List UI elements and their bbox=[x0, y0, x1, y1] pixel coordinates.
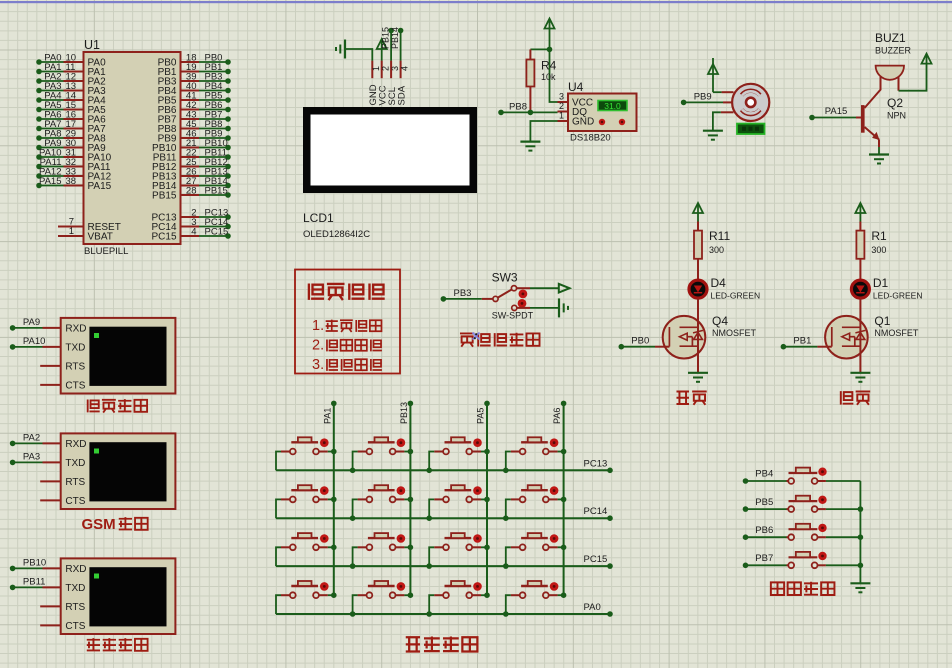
keypad column wire PB13 bbox=[399, 401, 413, 598]
svg-text:PB15: PB15 bbox=[380, 27, 390, 49]
svg-text:Q2: Q2 bbox=[887, 96, 903, 110]
svg-text:BUZ1: BUZ1 bbox=[875, 31, 906, 45]
ground right of SW3 bottom contact bbox=[517, 298, 568, 317]
svg-text:10k: 10k bbox=[541, 72, 556, 82]
wire PB0 to Q4 gate bbox=[619, 336, 670, 350]
window top border line bbox=[0, 1, 952, 3]
item 1.当前温度 bbox=[312, 318, 381, 334]
wire power to motor top terminal bbox=[713, 91, 734, 93]
motor green readout display bbox=[737, 124, 765, 134]
U1 pin 14 (PA4) wire and terminal bbox=[36, 90, 106, 106]
svg-text:PA6: PA6 bbox=[552, 408, 562, 424]
svg-text:TXD: TXD bbox=[65, 583, 85, 594]
svg-text:SW-SPDT: SW-SPDT bbox=[492, 311, 534, 321]
keypad row wire PC13 bbox=[276, 458, 613, 473]
svg-text:1: 1 bbox=[559, 111, 564, 121]
item 2.打开保温 bbox=[312, 338, 382, 354]
wire PA2 to module bbox=[10, 432, 61, 446]
label 语音串口 bbox=[88, 399, 147, 412]
wire buzzer left leg to Q2 collector bbox=[865, 77, 881, 108]
serial terminal module 语音串口 body bbox=[61, 318, 176, 394]
wire PB9 to motor bbox=[681, 91, 734, 105]
U1 pin 25 (PB12) wire and terminal bbox=[152, 157, 231, 173]
svg-text:U1: U1 bbox=[84, 38, 100, 52]
R1 value label 300 bbox=[871, 245, 886, 255]
svg-text:GND: GND bbox=[572, 117, 594, 128]
wire PB3 to SW3 pole bbox=[441, 288, 493, 302]
U1 pin 29 (PA8) wire and terminal bbox=[36, 128, 106, 144]
U1 pin 7 RESET bbox=[58, 217, 121, 234]
wire PA9 to module bbox=[10, 317, 61, 331]
svg-text:PA10: PA10 bbox=[23, 336, 46, 347]
BUZ1 value label BUZZER bbox=[875, 46, 912, 56]
push button at row PC13 column PB13 bbox=[353, 437, 411, 470]
svg-text:PA3: PA3 bbox=[23, 451, 40, 462]
U1 pin 38 (PA15) wire and terminal bbox=[36, 176, 111, 192]
svg-text:R4: R4 bbox=[541, 59, 557, 73]
svg-text:NMOSFET: NMOSFET bbox=[712, 328, 757, 338]
svg-text:4: 4 bbox=[191, 226, 196, 237]
D4 value label LED-GREEN bbox=[711, 291, 761, 301]
module CTS pin stub bbox=[40, 624, 61, 626]
svg-text:RTS: RTS bbox=[65, 602, 85, 613]
svg-text:R11: R11 bbox=[709, 229, 730, 243]
svg-text:300: 300 bbox=[871, 245, 886, 255]
push button at row PC14 column PB13 bbox=[353, 485, 411, 518]
wire PB8 bbox=[498, 102, 557, 116]
svg-text:VBAT: VBAT bbox=[88, 232, 113, 243]
U1 pin 12 (PA2) wire and terminal bbox=[36, 71, 106, 87]
power symbol above R11 bbox=[693, 203, 703, 222]
svg-text:CTS: CTS bbox=[65, 496, 85, 507]
U4 reference label bbox=[568, 80, 584, 94]
power symbol above motor bbox=[708, 58, 718, 92]
push button at row PC13 column PA1 bbox=[276, 437, 334, 470]
U1 pin 40 (PB4) wire and terminal bbox=[158, 81, 231, 97]
label 独立按键 bbox=[771, 582, 835, 596]
svg-text:PC14: PC14 bbox=[584, 506, 608, 517]
label 火焰传感器 bbox=[460, 333, 540, 347]
svg-text:3: 3 bbox=[559, 92, 564, 102]
text box 语音指令 frame bbox=[295, 270, 400, 374]
serial terminal module 蓝牙串口 body bbox=[61, 558, 176, 634]
svg-text:2: 2 bbox=[559, 101, 564, 111]
LED D4 LED-GREEN bbox=[689, 280, 707, 316]
Q2 reference label bbox=[887, 96, 903, 110]
ground symbol below U4 bbox=[520, 142, 540, 151]
push button at row PC14 column PA5 bbox=[429, 485, 487, 518]
IC U1 BLUEPILL body bbox=[84, 52, 181, 244]
svg-text:OLED12864I2C: OLED12864I2C bbox=[303, 229, 370, 240]
wire Q2 emitter to ground bbox=[878, 147, 880, 155]
power symbol right of buzzer bbox=[922, 54, 932, 64]
ground symbol below Q4 bbox=[688, 373, 708, 382]
junction node above R4 bbox=[547, 47, 553, 53]
R4 value label 10k bbox=[541, 72, 556, 82]
U1 pin 15 (PA5) wire and terminal bbox=[36, 100, 106, 116]
title 语音指令 bbox=[309, 284, 385, 301]
push button at row PA0 column PA5 bbox=[429, 581, 487, 614]
svg-text:SW3: SW3 bbox=[492, 271, 518, 285]
LED D1 LED-GREEN bbox=[851, 280, 869, 316]
U1 pin 30 (PA9) wire and terminal bbox=[36, 138, 106, 154]
SW3 reference label bbox=[492, 271, 518, 285]
module CTS pin stub bbox=[40, 384, 61, 386]
svg-text:PB15: PB15 bbox=[152, 191, 177, 202]
power symbol above R4 bbox=[545, 19, 555, 50]
ground symbol for LCD1 GND pin bbox=[336, 40, 372, 61]
svg-text:RXD: RXD bbox=[65, 564, 86, 575]
push button PB5 bbox=[787, 496, 861, 512]
MOSFET Q1 body bbox=[825, 316, 868, 373]
ground symbol below Q1 bbox=[850, 373, 870, 382]
svg-text:CTS: CTS bbox=[65, 621, 85, 632]
push button at row PC13 column PA6 bbox=[506, 437, 564, 470]
keypad column wire PA6 bbox=[552, 401, 566, 598]
resistor R1 bbox=[856, 222, 864, 280]
D1 reference label bbox=[873, 276, 889, 290]
resistor R4 bbox=[526, 49, 534, 112]
svg-text:DS18B20: DS18B20 bbox=[570, 133, 611, 144]
motor/fan body PB9 bbox=[732, 84, 769, 121]
svg-text:NPN: NPN bbox=[887, 111, 906, 121]
svg-text:PA15: PA15 bbox=[825, 106, 848, 117]
keypad column wire PA1 bbox=[322, 401, 336, 598]
module CTS pin stub bbox=[40, 499, 61, 501]
wire PB10 to module bbox=[10, 557, 61, 571]
wire PB14 to LCD1 SDA bbox=[390, 27, 404, 61]
U1 pin 13 (PA3) wire and terminal bbox=[36, 81, 106, 97]
svg-text:R1: R1 bbox=[871, 229, 887, 243]
push button PB4 bbox=[787, 468, 861, 484]
function label 制冷 bbox=[841, 391, 870, 405]
svg-text:D1: D1 bbox=[873, 276, 889, 290]
svg-text:PB8: PB8 bbox=[509, 102, 527, 113]
svg-text:LCD1: LCD1 bbox=[303, 211, 334, 225]
push button PB7 bbox=[787, 552, 861, 568]
wire motor bottom terminal to ground bbox=[713, 112, 734, 130]
resistor R11 bbox=[694, 222, 702, 280]
svg-text:BLUEPILL: BLUEPILL bbox=[84, 246, 128, 257]
svg-text:PA2: PA2 bbox=[23, 432, 40, 443]
ground symbol below Q2 bbox=[869, 155, 889, 164]
U1 pin 33 (PA12) wire and terminal bbox=[36, 166, 111, 182]
svg-text:BUZZER: BUZZER bbox=[875, 46, 912, 56]
R4 reference label bbox=[541, 59, 557, 73]
svg-text:PA0: PA0 bbox=[584, 602, 601, 613]
svg-text:Q4: Q4 bbox=[712, 314, 728, 328]
U1 pin 26 (PB13) wire and terminal bbox=[152, 166, 231, 182]
R1 reference label bbox=[871, 229, 887, 243]
svg-text:LED-GREEN: LED-GREEN bbox=[711, 291, 761, 301]
svg-text:28: 28 bbox=[186, 185, 197, 196]
R11 reference label bbox=[709, 229, 730, 243]
U1 pin 41 (PB5) wire and terminal bbox=[158, 90, 231, 106]
svg-text:PC15: PC15 bbox=[584, 554, 608, 565]
svg-text:38: 38 bbox=[66, 176, 77, 187]
U1 pin 46 (PB9) wire and terminal bbox=[158, 128, 231, 144]
wire PB5 to push button bbox=[743, 497, 787, 512]
Q2 value label NPN bbox=[887, 111, 906, 121]
U1 pin 22 (PB11) wire and terminal bbox=[153, 147, 231, 163]
svg-text:PA5: PA5 bbox=[476, 408, 486, 424]
transistor Q2 NPN bbox=[861, 105, 880, 147]
svg-text:PB10: PB10 bbox=[23, 557, 46, 568]
ground symbol for independent buttons bbox=[850, 583, 870, 592]
LCD1 pin 1 stub and label GND bbox=[368, 61, 381, 106]
U1 pin 43 (PB7) wire and terminal bbox=[158, 109, 231, 125]
Q4 value label NMOSFET bbox=[712, 328, 757, 338]
D1 value label LED-GREEN bbox=[873, 291, 923, 301]
label 矩阵按键 bbox=[406, 637, 478, 653]
svg-text:PA1: PA1 bbox=[322, 408, 332, 424]
module RTS pin stub bbox=[40, 605, 61, 607]
LCD1 pin 4 stub and label SDA bbox=[396, 61, 409, 106]
push button at row PC14 column PA1 bbox=[276, 485, 334, 518]
U1 pin 18 (PB0) wire and terminal bbox=[158, 52, 231, 68]
push button at row PC15 column PA6 bbox=[506, 533, 564, 566]
svg-text:TXD: TXD bbox=[65, 458, 85, 469]
label 蓝牙串口 bbox=[87, 638, 148, 651]
svg-text:RXD: RXD bbox=[65, 323, 86, 334]
U1 pin 11 (PA1) wire and terminal bbox=[36, 62, 106, 78]
U1 pin 2 (PC13) wire and terminal bbox=[151, 207, 230, 223]
U1 pin 28 (PB15) wire and terminal bbox=[152, 185, 231, 201]
U1 reference designator bbox=[84, 38, 100, 52]
wire PB6 to push button bbox=[743, 525, 787, 540]
push button PB6 bbox=[787, 524, 861, 540]
U1 pin 3 (PC14) wire and terminal bbox=[151, 217, 230, 233]
LCD1 pin 3 stub and label SCL bbox=[387, 61, 400, 106]
svg-text:PB9: PB9 bbox=[694, 91, 712, 102]
push button at row PA0 column PB13 bbox=[353, 581, 411, 614]
svg-text:RTS: RTS bbox=[65, 361, 85, 372]
U1 pin 39 (PB3) wire and terminal bbox=[158, 71, 231, 87]
svg-text:PB15: PB15 bbox=[205, 185, 228, 196]
module RTS pin stub bbox=[40, 365, 61, 367]
label GSM串口 bbox=[82, 516, 148, 533]
svg-text:PB4: PB4 bbox=[755, 469, 773, 480]
wire PB7 to push button bbox=[743, 553, 787, 568]
OLED display LCD1 body bbox=[304, 108, 477, 193]
push button at row PC15 column PB13 bbox=[353, 533, 411, 566]
keypad row wire PC15 bbox=[276, 554, 613, 569]
U1 pin 31 (PA10) wire and terminal bbox=[36, 147, 111, 163]
svg-text:2.: 2. bbox=[312, 338, 324, 354]
svg-text:3: 3 bbox=[390, 66, 400, 71]
svg-text:LED-GREEN: LED-GREEN bbox=[873, 291, 923, 301]
push button at row PC15 column PA1 bbox=[276, 533, 334, 566]
svg-text:TXD: TXD bbox=[65, 342, 85, 353]
svg-text:PA9: PA9 bbox=[23, 317, 40, 328]
svg-text:PC13: PC13 bbox=[584, 458, 608, 469]
svg-text:PC15: PC15 bbox=[205, 226, 229, 237]
svg-text:PB1: PB1 bbox=[793, 336, 811, 347]
U1 pin 19 (PB1) wire and terminal bbox=[158, 62, 231, 78]
svg-text:31.0: 31.0 bbox=[604, 101, 621, 111]
svg-text:SDA: SDA bbox=[396, 85, 407, 105]
output terminal arrow from SW3 top contact bbox=[517, 284, 570, 293]
wire PB4 to push button bbox=[743, 469, 787, 484]
push button at row PA0 column PA1 bbox=[276, 581, 334, 614]
MOSFET Q4 body bbox=[663, 316, 706, 373]
R11 value label 300 bbox=[709, 245, 724, 255]
wire PB11 to module bbox=[10, 576, 61, 590]
wire from power junction to U4 VCC bbox=[550, 49, 558, 102]
svg-text:PC15: PC15 bbox=[151, 232, 176, 243]
function label 加热 bbox=[676, 391, 706, 404]
D4 reference label bbox=[711, 276, 727, 290]
svg-text:PB7: PB7 bbox=[755, 553, 773, 564]
serial terminal module 串口 body bbox=[61, 433, 176, 509]
push button at row PA0 column PA6 bbox=[506, 581, 564, 614]
keypad column wire PA5 bbox=[476, 401, 490, 598]
wire PB15 to LCD1 SCL bbox=[380, 27, 394, 61]
SW3 value label SW-SPDT bbox=[492, 311, 534, 321]
svg-text:U4: U4 bbox=[568, 80, 584, 94]
svg-text:PA15: PA15 bbox=[88, 181, 112, 192]
LCD1 reference label bbox=[303, 211, 334, 225]
svg-text:PB5: PB5 bbox=[755, 497, 773, 508]
svg-text:GSM: GSM bbox=[82, 516, 116, 533]
wire from power junction to R4 bbox=[530, 48, 549, 50]
svg-text:Q1: Q1 bbox=[874, 314, 890, 328]
svg-text:1: 1 bbox=[69, 226, 74, 237]
push button at row PC15 column PA5 bbox=[429, 533, 487, 566]
wire PA15 to Q2 base bbox=[809, 106, 861, 120]
BUZ1 reference label bbox=[875, 31, 906, 45]
svg-text:RXD: RXD bbox=[65, 439, 86, 450]
wire PA10 to module bbox=[10, 336, 61, 350]
svg-text:PB13: PB13 bbox=[399, 402, 409, 424]
common wire to ground for independent buttons bbox=[858, 481, 864, 583]
LCD1 pin 2 stub and label VCC bbox=[378, 61, 391, 106]
wire PB1 to Q1 gate bbox=[781, 336, 832, 350]
ground symbol below motor wire bbox=[703, 131, 723, 140]
svg-text:PB11: PB11 bbox=[23, 576, 46, 587]
wire PA3 to module bbox=[10, 451, 61, 465]
push button at row PC13 column PA5 bbox=[429, 437, 487, 470]
power symbol for LCD1 VCC pin bbox=[377, 39, 387, 61]
Q1 reference label bbox=[874, 314, 890, 328]
svg-text:RTS: RTS bbox=[65, 477, 85, 488]
wire U4 GND to ground bbox=[530, 121, 557, 142]
svg-text:PA15: PA15 bbox=[39, 176, 62, 187]
U1 pin 27 (PB14) wire and terminal bbox=[152, 176, 231, 192]
U1 pin 32 (PA11) wire and terminal bbox=[36, 157, 111, 173]
keypad row wire PC14 bbox=[276, 506, 613, 521]
module RTS pin stub bbox=[40, 480, 61, 482]
Q1 value label NMOSFET bbox=[874, 328, 919, 338]
U1 pin 45 (PB8) wire and terminal bbox=[158, 119, 231, 135]
selection origin marker on label bbox=[473, 333, 480, 340]
U1 pin 17 (PA7) wire and terminal bbox=[36, 119, 106, 135]
U1 pin 10 (PA0) wire and terminal bbox=[36, 52, 106, 68]
svg-text:PB14: PB14 bbox=[390, 27, 400, 49]
U1 value label BLUEPILL bbox=[84, 246, 128, 257]
svg-text:300: 300 bbox=[709, 245, 724, 255]
svg-text:3.: 3. bbox=[312, 357, 324, 373]
U1 pin 16 (PA6) wire and terminal bbox=[36, 109, 106, 125]
temperature sensor U4 DS18B20 body bbox=[558, 92, 637, 132]
switch SW3 SW-SPDT bbox=[493, 286, 527, 311]
keypad row wire PA0 bbox=[276, 602, 613, 617]
svg-text:1.: 1. bbox=[312, 318, 324, 334]
U1 pin 1 VBAT bbox=[58, 226, 113, 243]
wire buzzer right leg to power bbox=[899, 63, 927, 90]
svg-text:PB3: PB3 bbox=[454, 288, 472, 299]
LCD1 value label OLED12864I2C bbox=[303, 229, 370, 240]
push button at row PC14 column PA6 bbox=[506, 485, 564, 518]
svg-text:PB6: PB6 bbox=[755, 525, 773, 536]
U1 pin 42 (PB6) wire and terminal bbox=[158, 100, 231, 116]
U1 pin 4 (PC15) wire and terminal bbox=[151, 226, 230, 242]
Q4 reference label bbox=[712, 314, 728, 328]
U1 pin 21 (PB10) wire and terminal bbox=[152, 138, 231, 154]
svg-text:4: 4 bbox=[399, 66, 409, 71]
item 3.关闭保温 bbox=[312, 357, 382, 373]
U4 value label DS18B20 bbox=[570, 133, 611, 144]
buzzer BUZ1 body bbox=[876, 66, 904, 80]
power symbol above R1 bbox=[855, 203, 865, 222]
svg-text:D4: D4 bbox=[711, 276, 727, 290]
svg-text:CTS: CTS bbox=[65, 380, 85, 391]
svg-text:NMOSFET: NMOSFET bbox=[874, 328, 919, 338]
svg-text:PB0: PB0 bbox=[631, 336, 649, 347]
